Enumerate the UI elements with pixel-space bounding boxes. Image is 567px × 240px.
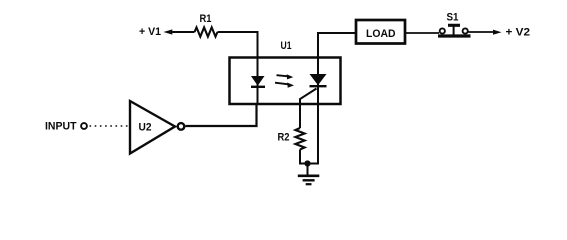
LED vertical leads inside U1 [257,58,259,105]
node +V1 arrowhead [164,29,173,34]
ground stem [307,164,309,176]
LED cathode bar [251,86,265,88]
wire R1 to LED anode corner [218,32,258,59]
light arrow lower [275,83,294,88]
svg-text:U1: U1 [281,40,292,52]
photo-SCR gate lead [300,89,317,105]
svg-text:R2: R2 [278,132,290,144]
wire R2 to ground node [299,150,301,164]
svg-text:U2: U2 [139,122,152,134]
wire gate down to R2 [299,104,301,128]
switch S1 left contact [440,28,445,33]
ground symbol [298,176,320,184]
resistor R2 [295,128,304,150]
LED of U1 (anode top, triangle) [251,76,265,86]
svg-text:S1: S1 [447,12,459,24]
dotted wire input to U2 [90,125,129,127]
light arrow upper [277,74,294,79]
wire LOAD to S1 [405,32,439,34]
inverter U2 output bubble [178,123,185,130]
switch S1 movable bar [438,34,471,37]
wire U1 anode up to LOAD rail [318,33,355,58]
wire arrow to R1 [171,31,195,33]
photo-SCR cathode bar [310,85,327,87]
LOAD box [356,20,405,44]
wire S1 to +V2 arrow [469,31,494,33]
wire bottom joining R2 and SCR cathode [299,163,319,165]
photo-SCR vertical leads inside U1 [317,58,319,105]
input terminal circle [81,123,87,129]
switch S1 right contact [463,28,468,33]
svg-text:INPUT: INPUT [45,121,77,133]
wire SCR cathode down [317,104,319,164]
svg-text:+ V2: + V2 [506,27,531,39]
svg-text:LOAD: LOAD [366,28,396,40]
switch S1 stem [453,26,455,36]
wire U2 output to LED cathode [186,104,257,126]
photo-SCR of U1 (triangle) [310,74,327,85]
optocoupler U1 box [230,58,341,105]
inverter U2 triangle [130,101,175,154]
node +V2 arrowhead [493,30,502,35]
svg-text:R1: R1 [200,13,212,25]
svg-text:+ V1: + V1 [139,26,161,38]
resistor R1 [195,27,218,36]
switch S1 button cap [448,24,460,27]
junction dot [304,160,310,166]
